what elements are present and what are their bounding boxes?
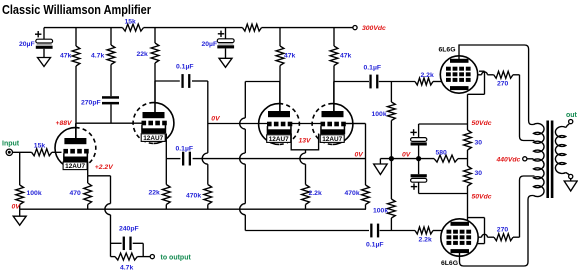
svg-text:47k: 47k (60, 53, 72, 60)
svg-text:50Vdc: 50Vdc (472, 193, 492, 200)
svg-text:0.1µF: 0.1µF (364, 65, 382, 72)
svg-text:12AU7: 12AU7 (322, 136, 342, 143)
svg-text:4.7k: 4.7k (91, 53, 104, 60)
svg-text:47k: 47k (284, 53, 296, 60)
svg-text:470: 470 (70, 190, 82, 197)
svg-text:to output: to output (161, 254, 192, 261)
svg-text:12AU7: 12AU7 (65, 163, 85, 170)
svg-text:440Vdc: 440Vdc (496, 157, 521, 164)
svg-text:100k: 100k (27, 190, 42, 197)
svg-text:6L6G: 6L6G (441, 260, 458, 267)
svg-text:50Vdc: 50Vdc (472, 120, 492, 127)
svg-text:0.1µF: 0.1µF (176, 145, 194, 152)
svg-text:0.1µF: 0.1µF (366, 241, 384, 248)
svg-text:0V: 0V (402, 151, 412, 158)
svg-text:580: 580 (436, 149, 448, 156)
svg-text:22k: 22k (137, 51, 149, 58)
svg-text:+2.2V: +2.2V (95, 164, 114, 171)
svg-text:470k: 470k (345, 190, 360, 197)
svg-text:15k: 15k (34, 142, 46, 149)
svg-text:47k: 47k (340, 53, 352, 60)
svg-text:13V: 13V (299, 138, 313, 145)
svg-text:20µF: 20µF (202, 41, 218, 48)
svg-text:4.7k: 4.7k (120, 264, 133, 271)
svg-text:20µF: 20µF (19, 41, 35, 48)
svg-text:22k: 22k (149, 190, 161, 197)
svg-text:100k: 100k (373, 208, 388, 215)
svg-text:300Vdc: 300Vdc (362, 25, 386, 32)
svg-text:0V: 0V (355, 151, 365, 158)
svg-text:2.2k: 2.2k (419, 236, 432, 243)
svg-text:out: out (566, 112, 578, 119)
svg-text:Input: Input (2, 141, 20, 148)
svg-text:30: 30 (475, 140, 483, 147)
svg-text:100k: 100k (372, 111, 387, 118)
svg-text:Classic Williamson Amplifier: Classic Williamson Amplifier (2, 2, 151, 17)
svg-text:240pF: 240pF (119, 225, 139, 232)
svg-text:0V: 0V (211, 116, 221, 123)
svg-text:30: 30 (475, 170, 483, 177)
svg-text:12AU7: 12AU7 (269, 136, 289, 143)
svg-text:2.2k: 2.2k (421, 72, 434, 79)
svg-text:6L6G: 6L6G (439, 46, 456, 53)
svg-text:270: 270 (497, 226, 509, 233)
svg-text:270: 270 (497, 81, 509, 88)
svg-text:15k: 15k (125, 19, 137, 26)
svg-text:+88V: +88V (56, 120, 74, 127)
svg-text:270pF: 270pF (81, 99, 101, 106)
svg-text:470k: 470k (186, 192, 201, 199)
svg-text:12AU7: 12AU7 (143, 135, 163, 142)
svg-text:2.2k: 2.2k (309, 190, 322, 197)
svg-text:0.1µF: 0.1µF (176, 64, 194, 71)
